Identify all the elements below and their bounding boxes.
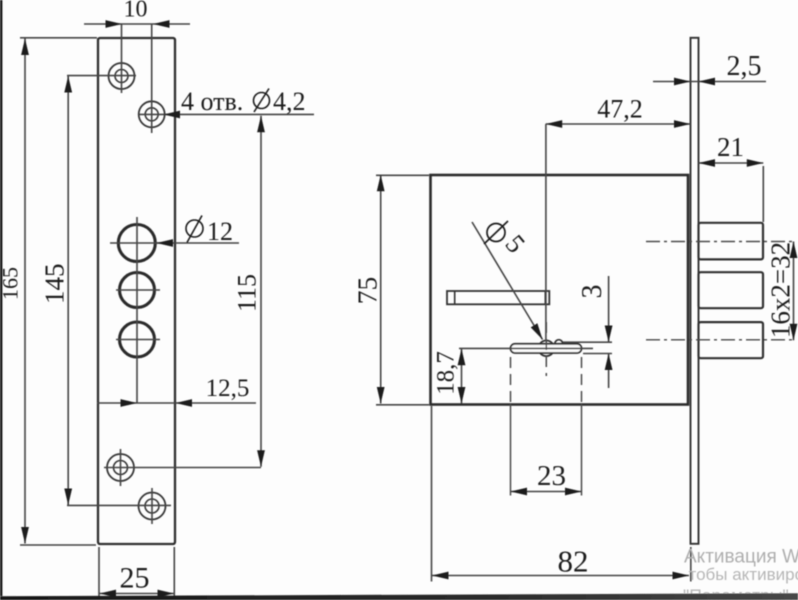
holeA vertical (120, 449, 122, 486)
svg-text:82: 82 (558, 544, 589, 579)
dim line 115 (260, 116, 262, 467)
leader d12 (157, 242, 240, 244)
ext holeB horizontal (67, 504, 171, 506)
bolt 3 (699, 322, 764, 358)
ext 23 right solid (below body) (581, 404, 583, 496)
svg-text:10: 10 (124, 0, 148, 23)
dim line 145 (67, 76, 69, 505)
faceplate side view (691, 38, 699, 544)
big hole 2 (120, 273, 155, 308)
svg-text:75: 75 (352, 277, 383, 305)
ext hole2 vertical (151, 24, 153, 133)
dim 3 upper tail (608, 276, 610, 342)
ext 3 top (563, 341, 612, 343)
holeB vertical (151, 488, 153, 524)
ext 165 top (20, 37, 97, 39)
dim line 23 (511, 491, 582, 493)
svg-text:4 отв.: 4 отв. (181, 87, 243, 116)
dim line 82 (432, 575, 689, 577)
ext 75 top (376, 174, 429, 176)
centerline through big holes (136, 217, 138, 403)
ext 3 bottom (583, 353, 612, 355)
cross big1 (110, 242, 166, 244)
keyhole group (539, 341, 555, 357)
keyhole vertical centerline (545, 322, 547, 376)
ext hole1 vertical (121, 24, 123, 93)
dim line 47,2 (546, 123, 691, 125)
dim line 2,5 (653, 81, 766, 83)
svg-text:тобы активирова: тобы активирова (689, 565, 798, 584)
ext 75 bottom (376, 404, 429, 406)
dim line 165 (24, 39, 26, 544)
leader d5 diagonal (472, 222, 543, 340)
bottom dark band (0, 593, 798, 600)
watermark (683, 547, 798, 600)
keyhole horizontal centerline (459, 347, 593, 349)
svg-text:18,7: 18,7 (433, 351, 460, 395)
hole bottom-left (4.2) (107, 454, 134, 481)
dim line 18,7 (461, 349, 463, 404)
ext 23 left dashed (inside body) (510, 357, 512, 404)
ext 25 left (98, 547, 100, 598)
svg-text:12,5: 12,5 (206, 375, 250, 402)
ext 25 right (173, 547, 175, 598)
svg-text:3: 3 (577, 285, 608, 299)
diameter sign 5 rotated (487, 224, 505, 242)
dim line 12,5 (97, 402, 256, 404)
ext 21 right (762, 166, 764, 222)
body outline (431, 175, 689, 405)
svg-text:145: 145 (40, 264, 70, 305)
ext 47,2 vertical down to keyhole (545, 124, 547, 341)
hole top-right (4.2) (139, 101, 165, 127)
svg-text:12: 12 (207, 217, 233, 246)
svg-text:23: 23 (537, 460, 566, 492)
ext 23 right dashed (inside body) (581, 357, 583, 404)
dim line 16x2=32 (793, 242, 795, 341)
leader 4 otv (139, 113, 314, 115)
svg-text:4,2: 4,2 (273, 87, 306, 116)
ext 165 bottom (20, 544, 96, 546)
svg-text:2,5: 2,5 (727, 51, 762, 82)
hole bottom-right (4.2) (139, 493, 166, 520)
bolt 2 (699, 272, 764, 308)
cross big3 (116, 339, 160, 341)
ext 23 left solid (below body) (510, 404, 512, 496)
thin construction / dimension lines (20, 24, 314, 598)
bolt 1 (699, 223, 764, 260)
diameter sign 12 (186, 220, 203, 237)
ext holeA horizontal to 115 dim (104, 467, 261, 469)
faceplate outline (98, 38, 175, 544)
slot in body (447, 291, 549, 304)
hole top-left (4.2) (109, 63, 135, 89)
svg-text:47,2: 47,2 (597, 95, 643, 124)
dim 3 lower tail (608, 354, 610, 389)
svg-text:165: 165 (0, 267, 22, 300)
dim line 75 (380, 175, 382, 404)
cross big2 (116, 289, 160, 291)
svg-text:25: 25 (120, 562, 150, 595)
ext hole1 horizontal (67, 75, 136, 77)
dim line 25 (100, 593, 175, 595)
dim line 21 (699, 162, 764, 164)
svg-text:21: 21 (717, 132, 744, 162)
big hole 1 (d12) (118, 225, 155, 262)
ext 82 right (690, 547, 692, 582)
ext 82 left (431, 406, 433, 582)
svg-text:115: 115 (233, 274, 262, 312)
bolt centerlines (646, 242, 794, 340)
big hole 3 (120, 322, 155, 357)
photo left border (0, 0, 2, 596)
diameter sign 4,2 (254, 93, 270, 109)
svg-text:16х2=32: 16х2=32 (766, 242, 796, 338)
dim line 10 (84, 23, 190, 25)
